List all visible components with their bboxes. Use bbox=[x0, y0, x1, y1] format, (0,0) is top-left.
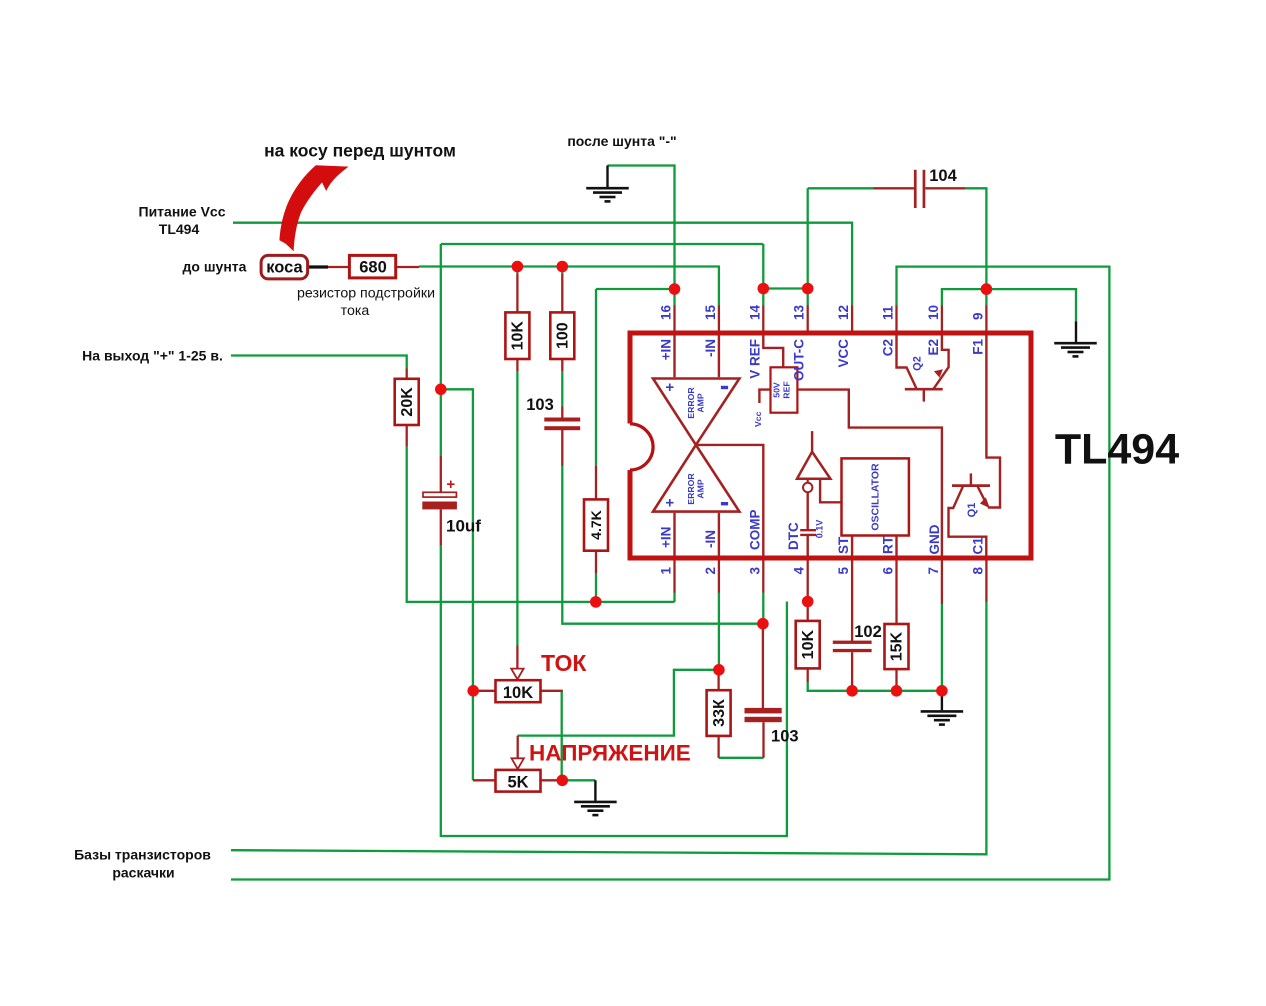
svg-text:-IN: -IN bbox=[703, 530, 718, 548]
svg-text:Базы транзисторов: Базы транзисторов bbox=[74, 847, 211, 863]
svg-text:4.7K: 4.7K bbox=[588, 510, 604, 540]
svg-text:1: 1 bbox=[659, 567, 674, 575]
svg-text:F1: F1 bbox=[970, 339, 985, 355]
svg-text:после шунта "-": после шунта "-" bbox=[567, 133, 676, 149]
svg-text:0.1V: 0.1V bbox=[815, 520, 825, 539]
svg-text:ERROR: ERROR bbox=[686, 387, 696, 419]
svg-text:REF: REF bbox=[782, 381, 792, 398]
svg-text:50V: 50V bbox=[772, 382, 782, 398]
svg-text:+: + bbox=[665, 379, 674, 396]
svg-text:10: 10 bbox=[926, 305, 941, 320]
svg-text:V REF: V REF bbox=[747, 339, 762, 379]
svg-text:11: 11 bbox=[881, 305, 896, 320]
svg-text:ТОК: ТОК bbox=[541, 650, 587, 676]
svg-text:На выход "+" 1-25 в.: На выход "+" 1-25 в. bbox=[82, 348, 223, 364]
svg-text:ERROR: ERROR bbox=[686, 473, 696, 505]
svg-text:Vcc: Vcc bbox=[753, 411, 763, 427]
svg-text:DTC: DTC bbox=[786, 522, 801, 550]
svg-text:5: 5 bbox=[836, 567, 851, 575]
svg-text:Q1: Q1 bbox=[966, 503, 978, 518]
svg-text:14: 14 bbox=[747, 304, 762, 320]
svg-text:15: 15 bbox=[703, 304, 718, 320]
svg-text:16: 16 bbox=[659, 304, 674, 320]
svg-text:8: 8 bbox=[970, 567, 985, 575]
svg-text:Q2: Q2 bbox=[912, 356, 924, 371]
svg-text:10K: 10K bbox=[800, 630, 817, 660]
svg-text:Питание Vcc: Питание Vcc bbox=[139, 204, 226, 220]
svg-text:4: 4 bbox=[792, 567, 807, 575]
svg-text:680: 680 bbox=[359, 259, 387, 277]
svg-text:9: 9 bbox=[970, 312, 985, 320]
svg-text:TL494: TL494 bbox=[159, 221, 200, 237]
svg-text:COMP: COMP bbox=[747, 510, 762, 551]
svg-text:10K: 10K bbox=[503, 684, 533, 702]
svg-text:13: 13 bbox=[792, 304, 807, 320]
svg-text:103: 103 bbox=[771, 728, 799, 746]
svg-text:резистор подстройки: резистор подстройки bbox=[297, 286, 435, 302]
svg-text:C2: C2 bbox=[881, 339, 896, 356]
svg-text:C1: C1 bbox=[970, 537, 985, 555]
svg-text:RT: RT bbox=[881, 535, 896, 554]
svg-text:15K: 15K bbox=[889, 631, 906, 661]
svg-text:-IN: -IN bbox=[703, 339, 718, 357]
svg-text:103: 103 bbox=[526, 396, 554, 414]
svg-text:+: + bbox=[446, 476, 455, 493]
svg-text:10uf: 10uf bbox=[446, 517, 481, 536]
svg-text:6: 6 bbox=[881, 567, 896, 575]
svg-text:100: 100 bbox=[555, 322, 572, 349]
svg-text:7: 7 bbox=[926, 567, 941, 575]
svg-text:12: 12 bbox=[836, 305, 851, 320]
svg-text:2: 2 bbox=[703, 567, 718, 575]
svg-text:E2: E2 bbox=[926, 339, 941, 356]
svg-text:AMP: AMP bbox=[696, 393, 706, 413]
svg-text:коса: коса bbox=[266, 259, 303, 277]
svg-text:GND: GND bbox=[927, 524, 942, 554]
svg-text:тока: тока bbox=[341, 303, 370, 319]
svg-text:3: 3 bbox=[747, 567, 762, 575]
svg-text:TL494: TL494 bbox=[1055, 426, 1179, 474]
svg-text:+: + bbox=[665, 494, 674, 511]
svg-text:раскачки: раскачки bbox=[112, 865, 174, 881]
svg-text:20K: 20K bbox=[399, 387, 416, 417]
svg-text:5K: 5K bbox=[507, 773, 528, 791]
svg-text:НАПРЯЖЕНИЕ: НАПРЯЖЕНИЕ bbox=[529, 741, 691, 766]
svg-text:до шунта: до шунта bbox=[183, 259, 247, 275]
svg-text:33К: 33К bbox=[711, 699, 728, 727]
svg-text:OSCILLATOR: OSCILLATOR bbox=[870, 463, 882, 531]
svg-text:ST: ST bbox=[836, 536, 851, 554]
svg-text:на косу перед шунтом: на косу перед шунтом bbox=[264, 141, 456, 161]
svg-text:AMP: AMP bbox=[696, 479, 706, 499]
svg-text:+IN: +IN bbox=[659, 527, 674, 548]
svg-text:102: 102 bbox=[854, 623, 882, 641]
svg-text:10K: 10K bbox=[510, 321, 527, 351]
svg-text:OUT-C: OUT-C bbox=[792, 339, 807, 381]
svg-text:104: 104 bbox=[929, 167, 957, 185]
svg-text:+IN: +IN bbox=[659, 339, 674, 360]
svg-text:VCC: VCC bbox=[836, 339, 851, 368]
